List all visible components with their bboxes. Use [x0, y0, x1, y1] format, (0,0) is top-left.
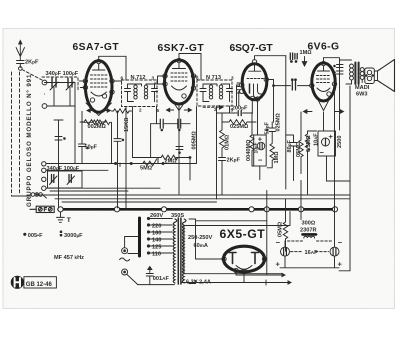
svg-text:2KpF: 2KpF: [25, 60, 39, 66]
wire: [273, 85, 275, 87]
svg-text:220: 220: [152, 224, 161, 230]
svg-text:005MΩ: 005MΩ: [192, 131, 198, 150]
wire: [222, 121, 256, 123]
wire: [75, 81, 85, 164]
svg-text:3000µF: 3000µF: [64, 233, 83, 239]
svg-text:025MΩ: 025MΩ: [230, 124, 249, 130]
svg-text:2: 2: [214, 107, 217, 112]
resistor 0.02M: [80, 120, 106, 125]
wire: [219, 106, 222, 110]
svg-text:2MΩ: 2MΩ: [165, 159, 178, 165]
wire: [324, 58, 340, 130]
wire: [221, 113, 223, 130]
0.5M resistor left of box: [305, 131, 316, 194]
input terminals (3 circles): [12, 193, 47, 198]
svg-text:6W3: 6W3: [356, 92, 368, 98]
wire: [274, 85, 310, 87]
svg-text:MF 457 kHz: MF 457 kHz: [54, 255, 84, 261]
wire: [285, 56, 287, 189]
wire: [82, 111, 112, 163]
svg-text:300Ω: 300Ω: [302, 221, 316, 227]
svg-text:005▪F: 005▪F: [28, 233, 43, 239]
resistor 1M vertical: [267, 144, 274, 168]
svg-text:05MΩ: 05MΩ: [278, 221, 284, 237]
wire: [292, 82, 295, 91]
wire: [189, 219, 224, 259]
wire: [326, 156, 328, 181]
left dashed border lines: [11, 72, 13, 196]
wire: [291, 61, 293, 63]
osc vertical with cap: [54, 120, 63, 207]
capacitor on screen line: [114, 111, 124, 208]
6V6 cathode RC box: [318, 131, 336, 156]
N.713 leads: [179, 54, 230, 200]
svg-text:01MΩ: 01MΩ: [225, 134, 231, 150]
wire: [19, 72, 21, 193]
svg-text:15KΩ: 15KΩ: [124, 117, 130, 132]
svg-text:0.5MΩ: 0.5MΩ: [306, 135, 312, 152]
tuning gang 1 (340pF 100pF): [42, 77, 78, 108]
50pF cap right: [269, 122, 276, 143]
001AF cap: [146, 270, 153, 285]
svg-text:5: 5: [157, 108, 160, 113]
tuning gang 2 (340pF 100pF): [42, 162, 82, 191]
svg-text:+: +: [338, 260, 343, 269]
output transformer caps: [337, 65, 344, 75]
wire: [133, 107, 157, 158]
output transformer: [340, 60, 365, 84]
tube 6SQ7 envelope: [237, 60, 268, 102]
N.712 leads: [99, 56, 126, 209]
wire: [196, 107, 198, 164]
svg-text:200pF: 200pF: [232, 106, 248, 112]
svg-text:N.712: N.712: [131, 75, 146, 81]
svg-text:−: −: [276, 238, 281, 247]
wire: [236, 273, 285, 276]
10uF electrolytic box: [254, 135, 267, 166]
svg-text:6X5-GT: 6X5-GT: [220, 227, 266, 241]
wire: [334, 86, 336, 247]
wire: [295, 61, 297, 63]
wire: [252, 101, 257, 135]
wire: [259, 166, 261, 180]
wire: [316, 251, 329, 253]
svg-text:05MΩ: 05MΩ: [296, 141, 302, 157]
svg-text:125: 125: [152, 245, 161, 251]
bottom-left labels & symbols: [24, 231, 63, 237]
wire: [194, 75, 198, 77]
cap 50pF: [79, 122, 86, 163]
wire: [291, 251, 303, 253]
AVC dashed arrow: [203, 106, 220, 108]
primary taps: [149, 219, 172, 254]
wire: [291, 79, 293, 81]
svg-text:6: 6: [196, 76, 199, 81]
svg-text:N 713: N 713: [206, 75, 221, 81]
svg-text:001AF: 001AF: [153, 276, 170, 282]
svg-text:2: 2: [139, 108, 142, 113]
wire: [334, 72, 336, 74]
wire: [280, 267, 339, 269]
wire: [266, 80, 273, 123]
svg-text:3: 3: [152, 76, 155, 81]
svg-text:6SQ7-GT: 6SQ7-GT: [230, 43, 274, 54]
svg-text:0040MΩ: 0040MΩ: [246, 139, 252, 161]
wire: [112, 80, 122, 82]
antenna A: [16, 41, 24, 61]
wire: [55, 137, 64, 141]
mid caps between T2 and T3: [151, 119, 190, 157]
wire: [221, 148, 223, 158]
0.25M resistor horizontal: [229, 120, 247, 125]
svg-text:160: 160: [152, 231, 161, 237]
capacitor 200pF: [217, 111, 253, 116]
wire: [115, 163, 117, 165]
svg-text:002MΩ: 002MΩ: [88, 124, 107, 130]
capacitor 2KpF: [17, 61, 25, 71]
svg-text:140: 140: [152, 238, 161, 244]
wire: [189, 157, 191, 159]
svg-text:5MΩ: 5MΩ: [140, 166, 153, 172]
wire: [295, 79, 297, 81]
wire: [250, 113, 254, 167]
svg-text:1MΩ: 1MΩ: [274, 151, 280, 164]
wire: [181, 281, 291, 284]
IF transformer N.713: [197, 80, 233, 106]
wire rail AVC: [46, 164, 196, 171]
wire rail 1: [46, 187, 160, 189]
svg-text:T: T: [67, 217, 71, 224]
svg-text:−: −: [338, 238, 343, 247]
wire: [162, 163, 164, 165]
tube 6SA7 envelope: [83, 59, 114, 115]
wire: [87, 147, 89, 149]
svg-text:6SA7-GT: 6SA7-GT: [73, 42, 120, 53]
rotated labels: [26, 74, 343, 237]
wire B+ vertical: [266, 191, 268, 276]
svg-text:6SK7-GT: 6SK7-GT: [158, 43, 205, 54]
svg-text:2500: 2500: [337, 136, 343, 148]
wire: [155, 76, 165, 84]
wire: [323, 112, 325, 131]
wire: [300, 181, 302, 220]
svg-text:6: 6: [121, 76, 124, 81]
svg-text:1MΩ: 1MΩ: [300, 50, 313, 56]
thick ground bus: [59, 208, 336, 211]
primary winding: [173, 219, 177, 283]
wire: [265, 258, 267, 260]
svg-text:110: 110: [152, 252, 161, 258]
wire: [334, 65, 336, 67]
wire rail 3: [38, 194, 350, 196]
IF transformer N.712: [122, 80, 158, 107]
band switch box GFD: [30, 206, 54, 212]
resistor 15K horizontal: [112, 109, 132, 113]
rectifier box: [184, 212, 290, 274]
80pF cap: [286, 135, 297, 181]
resistor 05M vertical: [299, 112, 303, 174]
svg-text:260V: 260V: [150, 213, 163, 219]
svg-text:MADI: MADI: [355, 85, 370, 91]
wire: [339, 86, 350, 271]
caps at volume: [290, 53, 297, 60]
svg-text:025MΩ: 025MΩ: [275, 113, 281, 132]
wire: [133, 157, 191, 159]
2KpF cap: [219, 158, 226, 195]
power transformer: [120, 217, 186, 284]
svg-text:6,3V 2,4A: 6,3V 2,4A: [186, 280, 211, 286]
wire: [267, 129, 269, 131]
choke 0.5H vertical resistor: [283, 199, 287, 251]
svg-text:250-250V: 250-250V: [188, 235, 213, 241]
wire: [64, 138, 66, 140]
wire: [237, 85, 240, 106]
resistor 5M: [143, 159, 157, 166]
wire: [236, 273, 244, 283]
wire: [302, 57, 306, 67]
wire: [178, 104, 180, 194]
junction circles on bus: [58, 207, 338, 212]
heater V: [86, 103, 111, 116]
tube 6X5 envelope: [222, 246, 267, 273]
speaker: [365, 60, 395, 92]
svg-text:3: 3: [231, 76, 234, 81]
svg-text:2307R: 2307R: [300, 228, 316, 234]
wire: [130, 163, 132, 165]
wire: [264, 280, 269, 285]
0.1M vertical resistor: [220, 130, 225, 148]
svg-text:350S: 350S: [171, 213, 184, 219]
svg-text:6V6-G: 6V6-G: [308, 42, 340, 53]
svg-text:+: +: [276, 260, 281, 269]
field coil 300ohm: [288, 234, 334, 241]
svg-text:10µF: 10µF: [254, 142, 260, 153]
svg-text:−: −: [320, 148, 325, 157]
svg-text:2KpF: 2KpF: [227, 158, 241, 164]
wire rail 5: [62, 201, 217, 203]
electrolytic 16AF #2: [330, 247, 339, 267]
resistor 2M horizontal: [161, 155, 178, 160]
ground T: [57, 212, 65, 222]
wire: [255, 56, 286, 60]
wire: [189, 281, 196, 284]
wire: [327, 180, 351, 182]
cathode resistor below 6SA7: [82, 120, 111, 125]
svg-text:+: +: [258, 135, 263, 144]
wire: [119, 163, 121, 167]
wire: [22, 70, 42, 81]
wire rail 4: [55, 198, 350, 200]
svg-text:−: −: [258, 156, 263, 165]
tube 6SK7 envelope: [163, 58, 196, 111]
mid rails left: [158, 158, 190, 181]
electrolytic 16AF #1: [281, 241, 290, 267]
wire rail 2: [50, 190, 128, 192]
wire plate line: [196, 220, 267, 222]
svg-text:GB 12-46: GB 12-46: [26, 282, 53, 288]
svg-text:+: +: [329, 132, 334, 141]
svg-text:GRUPPO GELOSO MODELLO Nº 991: GRUPPO GELOSO MODELLO Nº 991: [26, 74, 33, 207]
tube 6V6 envelope: [304, 61, 344, 113]
logo: [11, 276, 57, 289]
